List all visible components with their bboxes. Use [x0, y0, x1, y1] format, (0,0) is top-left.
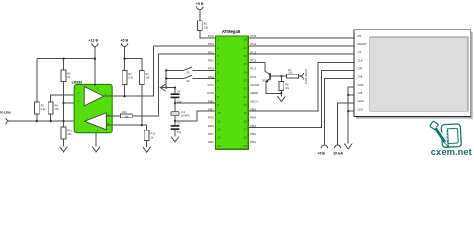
node junction emitter/R8	[280, 92, 282, 94]
svg-text:AREF: AREF	[250, 91, 258, 95]
svg-text:16: 16	[243, 136, 247, 140]
svg-text:DAT: DAT	[358, 67, 364, 71]
svg-text:cxem.net: cxem.net	[431, 146, 472, 157]
resistor R8	[279, 76, 290, 93]
switch S2	[166, 75, 215, 83]
svg-text:R12: R12	[151, 132, 156, 136]
IC U2 ATMega8	[216, 29, 249, 149]
svg-text:+5 В: +5 В	[318, 152, 326, 156]
wire R5 column	[36, 59, 38, 122]
node junction K-line/R9	[50, 120, 52, 122]
switch S1	[166, 67, 215, 75]
svg-text:RESET: RESET	[358, 42, 367, 46]
wire comparator output to PD0 riser	[104, 46, 216, 96]
resistor R3	[61, 70, 71, 82]
wire PC4 to LCD RESET	[248, 45, 354, 47]
resistor R4	[122, 71, 134, 85]
svg-text:R4: R4	[128, 72, 132, 76]
ground below transistor	[278, 96, 286, 101]
svg-text:PB7: PB7	[208, 107, 214, 111]
capacitor C6	[171, 88, 182, 104]
node 20mA connector	[333, 145, 343, 156]
wire PC2 to transistor collector	[248, 62, 265, 71]
wire emitter to ground node	[266, 81, 281, 93]
wire LCD 1V8 stub	[348, 94, 354, 96]
wire R12 to ground	[146, 141, 148, 147]
LCD module outer box	[354, 30, 471, 117]
svg-text:AGND: AGND	[250, 83, 260, 87]
svg-text:25: 25	[243, 62, 247, 66]
wire R3 column	[63, 59, 65, 122]
wire R4 to comparator output	[124, 85, 126, 97]
wire LCD LED- stub	[348, 110, 354, 112]
ground below R11	[60, 147, 68, 152]
svg-text:20: 20	[243, 103, 247, 107]
wire R11 to ground	[63, 121, 65, 147]
wire +12V column	[94, 47, 96, 85]
svg-text:19: 19	[243, 111, 247, 115]
pin numbers left ATMega8	[218, 38, 222, 148]
resistor R5	[34, 102, 46, 114]
svg-text:R3: R3	[67, 71, 71, 75]
resistor R12	[144, 130, 156, 140]
svg-text:S1: S1	[186, 71, 190, 75]
svg-text:11: 11	[218, 119, 221, 123]
wire lower comparator input B	[106, 125, 146, 130]
svg-text:PB2: PB2	[250, 132, 256, 136]
svg-text:PD4: PD4	[208, 75, 214, 79]
svg-text:18: 18	[243, 119, 247, 123]
svg-text:PB4: PB4	[250, 116, 256, 120]
svg-text:13: 13	[218, 136, 222, 140]
svg-text:28: 28	[243, 38, 247, 42]
svg-text:27: 27	[243, 46, 247, 50]
wire lower comparator input A from PD1	[106, 54, 215, 116]
svg-text:3V8: 3V8	[358, 75, 363, 79]
resistor R1	[197, 10, 208, 31]
wire PB3 to LCD DAT	[248, 70, 354, 127]
op-amp U1 LM293	[72, 81, 113, 133]
svg-text:1V8: 1V8	[358, 91, 363, 95]
svg-text:+5 В: +5 В	[120, 39, 128, 43]
wire LCD 3V8 to +5V connector	[324, 79, 354, 145]
node junction base/R8	[280, 75, 282, 77]
ground below R12	[143, 147, 151, 152]
svg-text:PD0: PD0	[208, 42, 214, 46]
node junction rail/R3	[62, 58, 64, 60]
svg-text:3.3k: 3.3k	[128, 76, 134, 80]
ground below LCD	[344, 144, 352, 149]
wire XTAL1 to PB6	[175, 102, 216, 104]
svg-text:PD5: PD5	[208, 116, 214, 120]
svg-text:PC0: PC0	[250, 75, 256, 79]
svg-text:+12В detect: +12В detect	[304, 69, 308, 85]
resistor R11	[61, 127, 72, 139]
resistor R9	[48, 102, 59, 114]
svg-text:R11: R11	[67, 128, 72, 132]
svg-text:17: 17	[243, 128, 247, 132]
node junction K-line/R5	[36, 120, 38, 122]
svg-text:26: 26	[243, 54, 247, 58]
svg-text:S2: S2	[186, 79, 190, 83]
wire XTAL2 to PB7	[175, 111, 216, 121]
svg-text:+12 В: +12 В	[88, 39, 98, 43]
ground below C7	[171, 137, 179, 142]
node junction 1V8	[347, 94, 349, 96]
svg-text:R5: R5	[41, 103, 45, 107]
svg-text:24: 24	[243, 70, 247, 74]
node junction XTAL2	[174, 120, 176, 122]
resistor R2	[139, 71, 150, 85]
wire LM293 ground pin4	[95, 133, 97, 147]
node junction R4/output	[124, 95, 126, 97]
svg-text:14: 14	[218, 144, 222, 148]
svg-text:10k: 10k	[204, 25, 209, 29]
LCD module shadow	[356, 32, 473, 119]
svg-text:21: 21	[243, 95, 247, 99]
wire R1 to PC6 reset	[200, 31, 216, 38]
wire PB5 to LCD CLK	[248, 62, 354, 111]
svg-text:R1: R1	[204, 22, 208, 26]
pin labels left ATMega8	[207, 34, 215, 144]
wire transistor base to R7	[271, 75, 287, 77]
node junction S1	[165, 69, 167, 71]
node +5V bottom connector	[318, 145, 328, 156]
wire LCD GND column	[348, 87, 354, 144]
svg-text:5.1k: 5.1k	[41, 107, 47, 111]
svg-text:12: 12	[218, 128, 222, 132]
node K-Line connector	[0, 111, 10, 125]
svg-text:K-Line: K-Line	[0, 111, 10, 115]
svg-text:15: 15	[243, 144, 247, 148]
node +5V supply left	[120, 39, 128, 47]
node junction rail/+12V	[94, 58, 96, 60]
svg-text:Cr1: Cr1	[181, 110, 186, 114]
node +12V supply	[88, 39, 98, 47]
pin labels LCD	[358, 34, 367, 111]
wire +12V rail	[37, 58, 95, 60]
svg-text:C6: C6	[177, 90, 181, 94]
svg-text:GND: GND	[358, 83, 364, 87]
svg-text:R9: R9	[55, 103, 59, 107]
resistor R7	[287, 69, 299, 78]
resistor R10	[121, 111, 133, 119]
wire R7 to +12V detect connector	[299, 75, 301, 77]
pin numbers right ATMega8	[243, 38, 247, 148]
ground left arrow	[160, 84, 165, 91]
svg-text:20 мА: 20 мА	[333, 152, 343, 156]
svg-text:+5 В: +5 В	[196, 2, 204, 6]
svg-text:LED+: LED+	[358, 99, 365, 103]
node LM293 pin8 supply entry	[94, 84, 96, 86]
svg-text:10: 10	[218, 111, 222, 115]
LCD screen	[370, 37, 468, 111]
transistor Q1 BC847	[262, 71, 270, 82]
svg-text:CS: CS	[358, 50, 362, 54]
node junction R3/comparator input	[62, 102, 64, 104]
crystal Cr1	[171, 103, 191, 121]
wire ground rail crystal	[161, 87, 175, 89]
node junction LED-	[347, 110, 349, 112]
wire +5V rail	[125, 59, 142, 71]
svg-text:R2: R2	[145, 72, 149, 76]
svg-text:10k: 10k	[67, 132, 72, 136]
cxem.net logo	[430, 121, 462, 148]
wire LCD LED+ to 20mA connector	[338, 103, 355, 145]
wire ground stub transistor	[280, 93, 282, 96]
svg-text:PB1: PB1	[250, 140, 256, 144]
node junction R2/input B	[141, 124, 143, 126]
wire +5V column	[124, 47, 126, 71]
svg-text:RS: RS	[358, 34, 362, 38]
svg-text:PD7: PD7	[208, 132, 214, 136]
svg-text:10k: 10k	[145, 76, 150, 80]
node junction common/ground	[165, 87, 167, 89]
node +12V detect connector	[300, 69, 308, 85]
wire comparator non-inverting input	[51, 95, 84, 121]
svg-text:C7: C7	[177, 121, 181, 125]
svg-text:23: 23	[243, 79, 247, 83]
wire R2 column down	[141, 85, 143, 126]
wire PC5 to LCD RS	[248, 37, 354, 39]
svg-text:AVCC: AVCC	[250, 99, 259, 103]
svg-text:LED-: LED-	[358, 107, 364, 111]
pin labels right ATMega8	[250, 34, 260, 144]
svg-text:PC1: PC1	[250, 67, 256, 71]
node junction XTAL1	[174, 102, 176, 104]
svg-text:GND: GND	[207, 91, 215, 95]
svg-text:ATMega8: ATMega8	[222, 29, 241, 34]
svg-text:R10: R10	[122, 111, 127, 114]
svg-text:PB6: PB6	[208, 99, 214, 103]
wire switches common column	[165, 70, 167, 87]
wire comparator inverting input	[64, 102, 85, 104]
svg-text:PB0: PB0	[208, 140, 214, 144]
svg-text:16 MHz: 16 MHz	[181, 114, 191, 118]
node junction +5V rail	[124, 58, 126, 60]
wire K-Line	[9, 120, 84, 122]
node junction S2	[165, 78, 167, 80]
svg-text:CLK: CLK	[358, 58, 363, 62]
svg-text:PD2: PD2	[208, 59, 214, 63]
node junction K-line/R3	[62, 120, 64, 122]
node +5V supply R1	[196, 2, 204, 10]
svg-text:10k: 10k	[55, 107, 60, 111]
svg-text:PD1: PD1	[208, 50, 214, 54]
svg-text:22p: 22p	[177, 130, 182, 134]
svg-text:PD3: PD3	[208, 67, 214, 71]
wire PC3 to LCD CS	[248, 53, 354, 55]
svg-text:PC6: PC6	[208, 34, 214, 38]
svg-text:VCC: VCC	[207, 83, 214, 87]
svg-text:PD6: PD6	[208, 124, 214, 128]
ground below LM293	[92, 147, 100, 152]
capacitor C7	[171, 121, 182, 137]
node junction C6 top	[174, 87, 176, 89]
svg-text:22: 22	[243, 87, 247, 91]
